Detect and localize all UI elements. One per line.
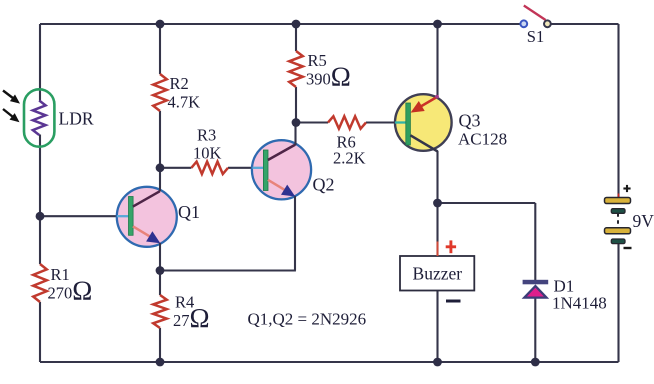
transistor Q1 base bar <box>129 197 134 236</box>
junction node D1 bottom <box>531 358 540 367</box>
battery inter-cell dashed link <box>617 213 619 228</box>
svg-text:AC128: AC128 <box>458 130 507 149</box>
svg-text:Buzzer: Buzzer <box>413 264 463 284</box>
transistor Q3 collector stroke <box>410 135 437 151</box>
svg-text:Q1: Q1 <box>178 202 200 222</box>
transistor Q2 base lead inner <box>252 167 264 169</box>
transistor Q1 emitter arrowhead <box>146 231 160 243</box>
transistor Q3 base bar <box>406 103 411 145</box>
junction node buzzer bottom <box>433 358 442 367</box>
junction node R2 top <box>156 20 165 29</box>
battery cell 1 long plate <box>605 198 631 204</box>
junction node A LDR-R1 junction <box>36 212 45 221</box>
transistor Q1 body <box>117 187 177 247</box>
resistor R5 <box>289 51 303 87</box>
wire R2 bottom lead to node B <box>159 111 161 168</box>
svg-text:R5: R5 <box>308 51 327 70</box>
transistor Q1 collector stroke <box>133 191 160 206</box>
wire Q2 emitter lead <box>294 196 296 271</box>
battery cell 2 long plate <box>605 228 631 234</box>
LDR zigzag element <box>33 101 46 136</box>
transistor Q3 emitter arrowhead <box>411 101 425 113</box>
junction node C emitter junction <box>156 266 165 275</box>
battery positive tick <box>618 194 620 198</box>
svg-text:4.7K: 4.7K <box>168 93 201 112</box>
battery plus sign <box>623 185 630 192</box>
svg-text:9V: 9V <box>633 211 654 231</box>
switch S1 left terminal <box>520 20 527 27</box>
svg-text:1N4148: 1N4148 <box>552 294 607 313</box>
wire Q3 emitter lead from top rail <box>436 24 438 97</box>
wire Q2 collector lead <box>294 123 296 146</box>
transistor Q2 body <box>252 140 311 199</box>
wire R5 top lead <box>295 24 297 51</box>
wire R2 top lead <box>159 24 161 74</box>
battery minus sign <box>624 247 632 249</box>
wire Q1 emitter lead to node C <box>159 243 161 271</box>
battery cell 1 short plate <box>611 209 625 214</box>
svg-text:10K: 10K <box>193 144 222 163</box>
junction node E collector junction <box>433 199 442 208</box>
diode D1 triangle <box>524 286 546 298</box>
wire left rail top to LDR zigzag <box>39 24 41 101</box>
svg-text:R1: R1 <box>51 265 70 284</box>
buzzer positive lead red tick <box>437 242 439 257</box>
wire R5 bottom lead to node D <box>295 87 297 123</box>
transistor Q3 emitter-outline crossing blend dot <box>435 95 439 99</box>
wire Q3 collector lead to node E <box>436 151 438 203</box>
transistor Q1 emitter stroke <box>133 226 152 238</box>
buzzer body <box>400 256 474 291</box>
wire R6 to Q3 base <box>366 121 395 123</box>
wire top rail right of S1 <box>551 23 619 25</box>
svg-text:S1: S1 <box>527 27 544 46</box>
wire node B to R3 <box>160 167 191 169</box>
junction node Q3 top <box>433 20 442 29</box>
resistor R6 <box>328 116 366 128</box>
battery cell 2 short plate <box>611 239 625 244</box>
transistor Q3 body <box>395 94 452 151</box>
wire D1 bottom lead <box>534 298 536 363</box>
buzzer plus sign <box>446 240 456 253</box>
transistor Q3 emitter stroke <box>419 97 437 108</box>
wire R4 bottom lead <box>159 328 161 362</box>
junction node R4 bottom <box>156 358 165 367</box>
wire D1 top lead <box>534 203 536 281</box>
diode D1 cathode bar <box>523 280 549 285</box>
transistor Q2 emitter arrowhead <box>281 185 295 197</box>
wire Q1 base lead <box>40 215 118 217</box>
transistor Q2 collector stroke <box>268 145 295 160</box>
svg-text:R2: R2 <box>170 74 189 93</box>
LDR light arrow 2 <box>3 109 20 122</box>
wire node E to buzzer <box>436 203 438 256</box>
wire node E to D1 branch <box>438 202 536 204</box>
svg-text:Q3: Q3 <box>459 111 481 131</box>
wire right rail battery to top <box>617 24 619 198</box>
transistor Q3 base lead inner <box>395 121 407 123</box>
switch S1 lever <box>524 6 546 21</box>
transistor Q1 base lead inner <box>117 215 129 217</box>
wire buzzer to bottom rail <box>436 291 438 363</box>
svg-text:2.2K: 2.2K <box>333 149 366 168</box>
transistor Q2 base bar <box>263 150 268 191</box>
wire top rail left of S1 <box>40 23 521 25</box>
svg-text:Q1,Q2 = 2N2926: Q1,Q2 = 2N2926 <box>248 310 367 329</box>
wire R3 to Q2 base <box>228 167 252 169</box>
LDR body outline <box>24 89 54 146</box>
wire R4 top lead <box>159 271 161 296</box>
wire node C to Q2 emitter <box>160 269 296 271</box>
svg-text:R3: R3 <box>197 126 216 145</box>
junction node B R3 junction <box>156 163 165 172</box>
resistor R4 <box>153 295 167 328</box>
wire LDR zigzag to node A <box>39 135 41 217</box>
svg-text:Q2: Q2 <box>313 175 335 195</box>
transistor Q2 emitter stroke <box>268 180 287 192</box>
wire bottom rail <box>40 361 619 363</box>
resistor R3 <box>191 162 228 174</box>
buzzer minus sign <box>446 300 461 303</box>
resistor R2 <box>153 74 167 111</box>
resistor R1 <box>33 264 47 302</box>
wire Q1 collector lead <box>159 168 161 192</box>
switch S1 right terminal <box>544 20 551 27</box>
wire node A to R1 <box>39 216 41 264</box>
wire node D to R6 <box>296 121 328 123</box>
wire right rail battery to bottom <box>617 243 619 362</box>
wire R1 to bottom rail <box>39 302 41 362</box>
junction node R5 top <box>292 20 301 29</box>
svg-text:LDR: LDR <box>59 109 94 129</box>
LDR light arrow 1 <box>3 91 20 104</box>
junction node D R6 junction <box>292 118 301 127</box>
